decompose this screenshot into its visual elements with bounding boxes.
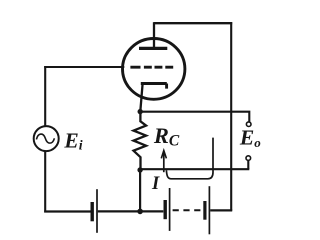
wire resistor bottom to bottom rail (139, 170, 141, 211)
battery B2 thin long electrode (169, 188, 171, 231)
vacuum tube V1 envelope (123, 39, 185, 100)
wire top (plate to right rail) (154, 22, 233, 24)
svg-text:RC: RC (153, 123, 180, 149)
wire lower output horizontal (140, 168, 249, 170)
tube grid dashed line (130, 66, 173, 69)
junction dot cathode node (138, 109, 143, 114)
tube plate lead (153, 22, 155, 48)
wire bottom right segment (210, 209, 232, 211)
svg-text:Ei: Ei (63, 129, 82, 154)
resistor RC (134, 114, 147, 168)
current loop path (166, 138, 213, 179)
terminal lower output (246, 156, 251, 161)
current arrow I head (161, 151, 166, 159)
tube cathode bar (141, 84, 167, 89)
wire bottom left segment (44, 210, 90, 212)
terminal upper output (246, 122, 251, 127)
current arrow I shaft (163, 152, 165, 173)
wire bottom middle segment (98, 210, 164, 212)
wire lower terminal drop (247, 161, 249, 170)
AC source Ei circle (34, 126, 59, 151)
dashed link between battery cells (173, 209, 202, 211)
svg-text:I: I (151, 174, 160, 194)
battery B2 thick short electrode (163, 200, 166, 219)
battery B3 thick short electrode (203, 201, 206, 220)
battery B1 thick short electrode (90, 202, 93, 221)
wire left rail upper vertical (44, 66, 46, 126)
junction dot bottom (137, 209, 143, 215)
svg-text:Eo: Eo (239, 125, 261, 149)
AC source sine wave (36, 134, 54, 143)
tube plate bar (139, 47, 167, 50)
wire cathode node to output upper (140, 112, 249, 122)
wire right rail vertical (230, 22, 232, 211)
junction dot resistor bottom (137, 167, 142, 172)
battery B1 thin long electrode (96, 189, 98, 233)
battery B3 thin long electrode (208, 186, 210, 234)
wire left rail lower vertical (44, 151, 46, 213)
tube cathode lead (140, 84, 142, 112)
wire grid horizontal from left rail to tube (44, 66, 124, 68)
